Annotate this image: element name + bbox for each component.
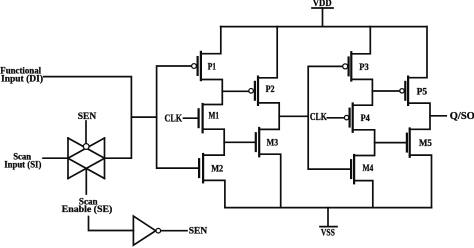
- svg-text:Q/SO: Q/SO: [450, 111, 474, 122]
- svg-text:Input (SI): Input (SI): [4, 160, 41, 170]
- svg-text:P4: P4: [361, 114, 371, 124]
- svg-text:M2: M2: [211, 164, 223, 174]
- svg-text:VSS: VSS: [321, 228, 335, 238]
- svg-text:P1: P1: [208, 62, 216, 72]
- svg-text:M5: M5: [419, 139, 432, 149]
- svg-text:CLK: CLK: [310, 112, 327, 123]
- svg-text:Enable (SE): Enable (SE): [62, 204, 113, 214]
- svg-text:M4: M4: [363, 164, 374, 174]
- svg-text:VDD: VDD: [313, 0, 332, 9]
- svg-text:SEN: SEN: [189, 226, 207, 237]
- svg-text:SEN: SEN: [78, 111, 96, 122]
- svg-text:Input (DI): Input (DI): [1, 73, 43, 83]
- svg-text:P2: P2: [266, 85, 275, 95]
- svg-text:P3: P3: [359, 63, 369, 73]
- svg-text:P5: P5: [417, 87, 428, 97]
- svg-text:M3: M3: [267, 139, 279, 149]
- svg-text:M1: M1: [209, 111, 220, 121]
- svg-text:CLK: CLK: [165, 113, 183, 124]
